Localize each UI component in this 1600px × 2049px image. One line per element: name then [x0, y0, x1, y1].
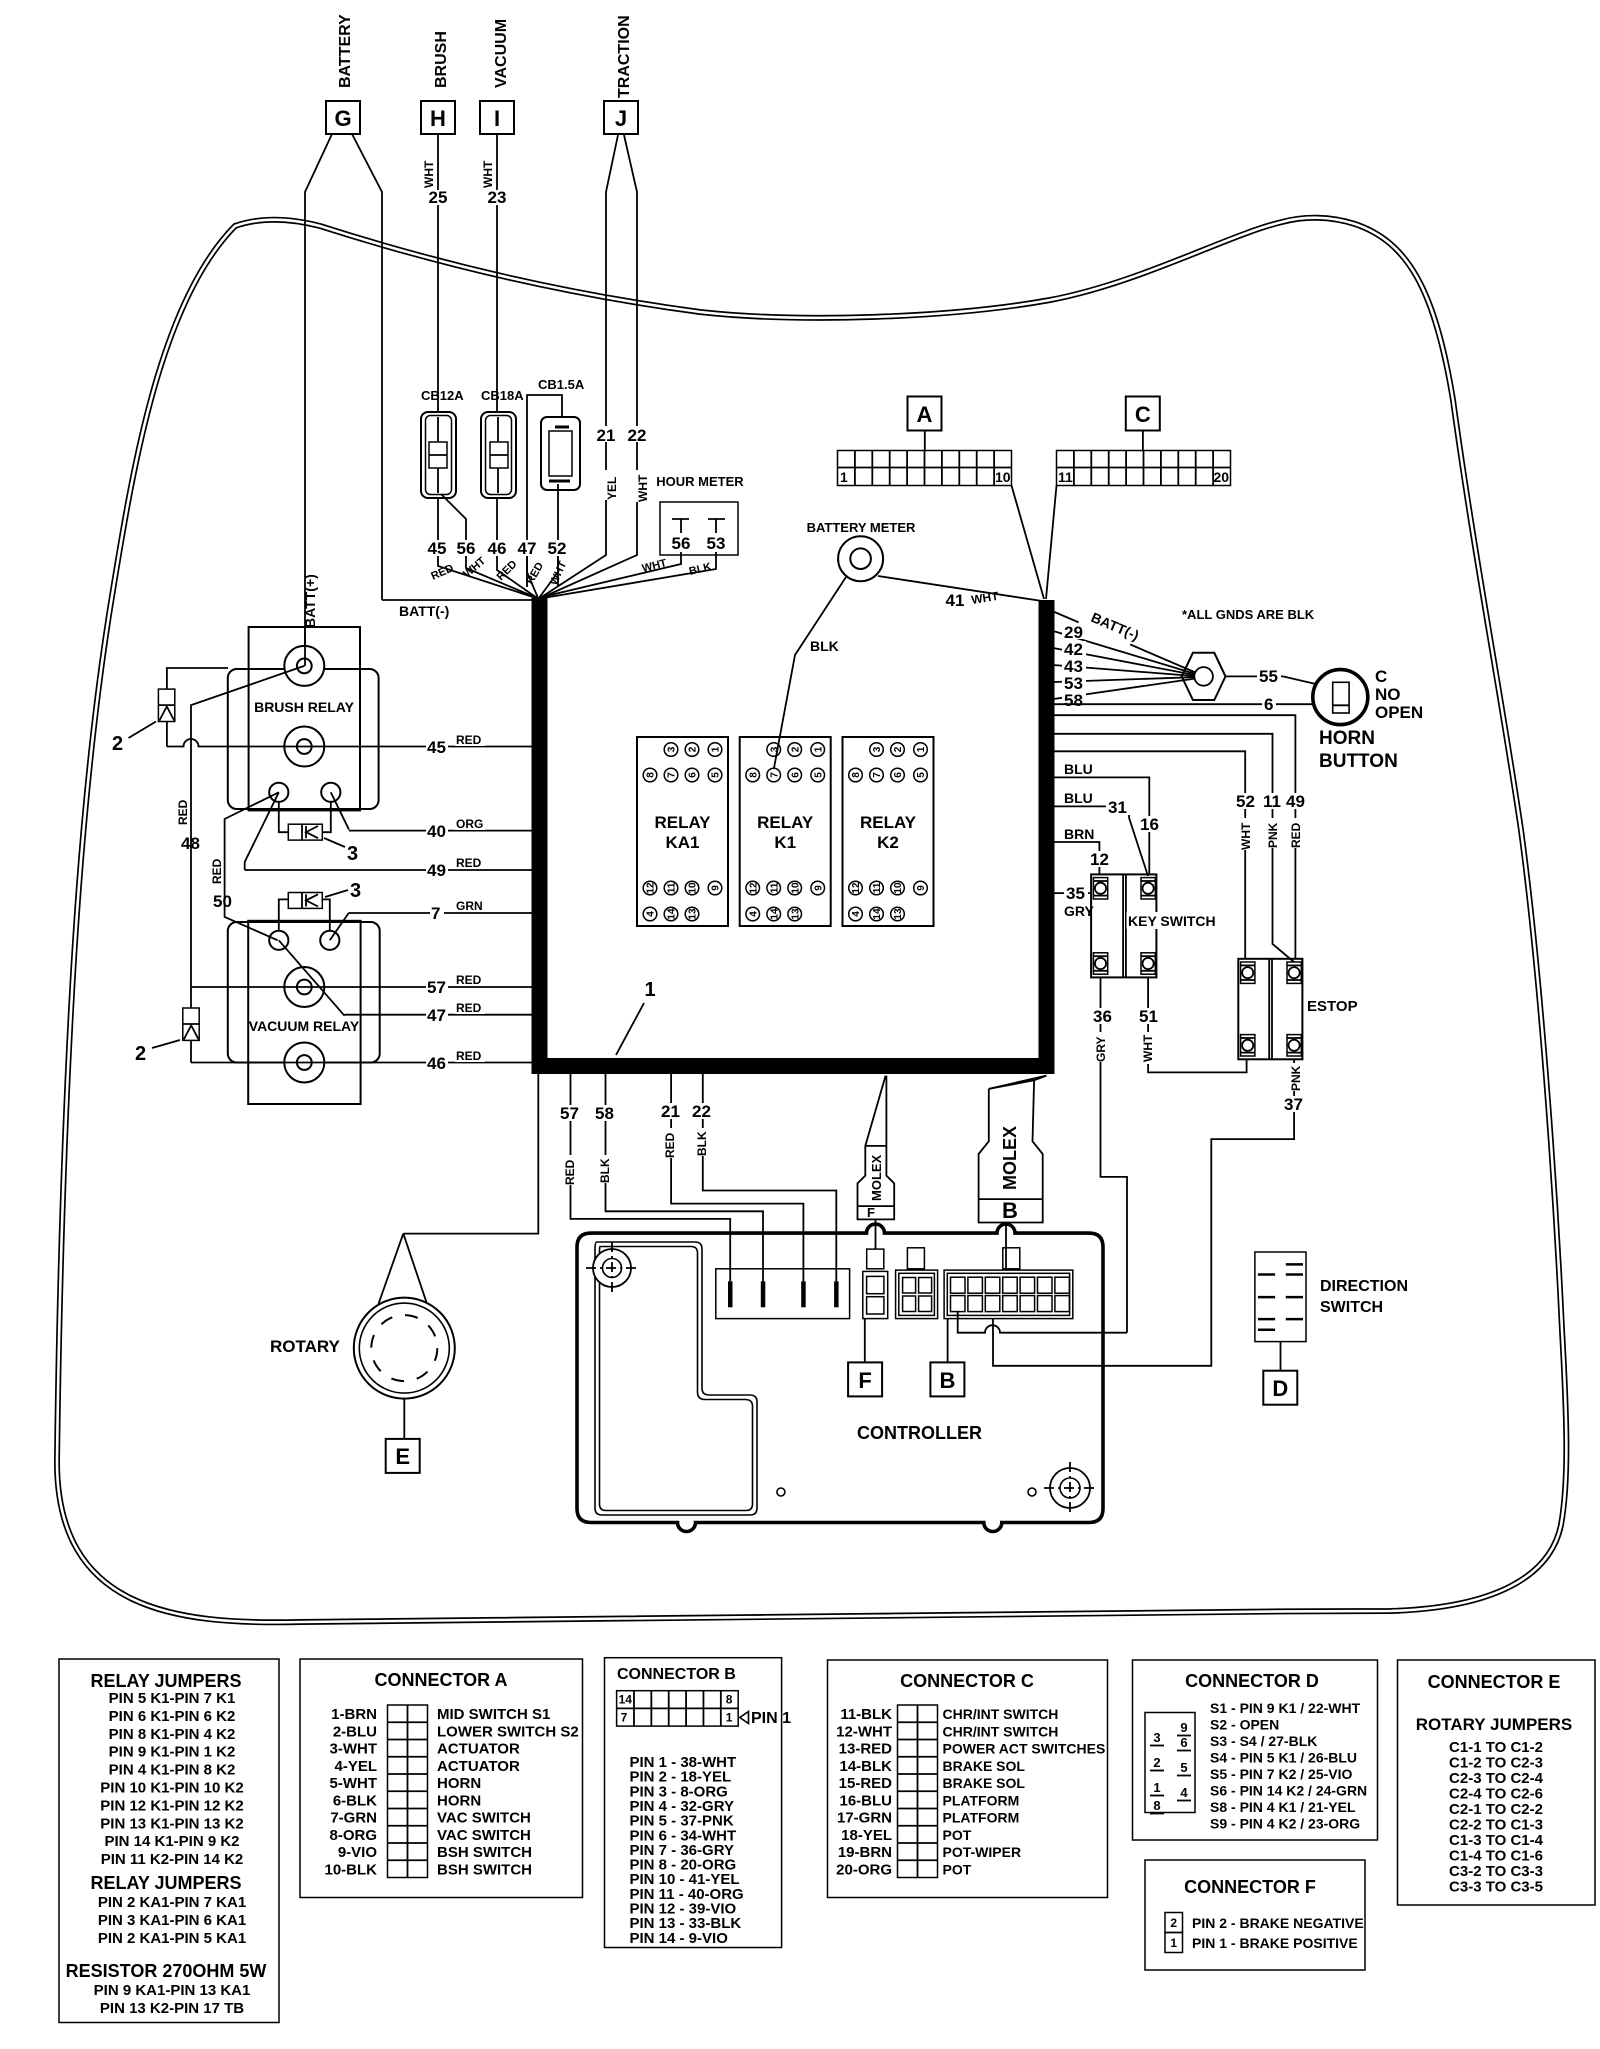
svg-text:55: 55: [1259, 667, 1278, 686]
svg-text:MID SWITCH S1: MID SWITCH S1: [437, 1706, 550, 1723]
wire 46 to junction: [496, 498, 498, 540]
svg-text:53: 53: [707, 534, 726, 553]
svg-text:PIN 3 KA1-PIN 6 KA1: PIN 3 KA1-PIN 6 KA1: [98, 1912, 246, 1929]
label 55: [1257, 667, 1281, 686]
svg-text:1: 1: [644, 979, 655, 1001]
wire 40 line: [349, 830, 532, 832]
svg-text:PIN 5 K1-PIN 7 K1: PIN 5 K1-PIN 7 K1: [109, 1690, 236, 1707]
wire 57 drop: [571, 1074, 731, 1281]
controller body: [577, 1224, 1103, 1531]
wire BATT(+) leg: [305, 134, 332, 646]
breaker CB12A: [421, 388, 464, 498]
svg-text:2: 2: [1170, 1916, 1177, 1930]
svg-text:S2 - OPEN: S2 - OPEN: [1210, 1717, 1279, 1733]
svg-text:POT: POT: [943, 1827, 972, 1843]
svg-text:LOWER SWITCH S2: LOWER SWITCH S2: [437, 1723, 579, 1740]
controller inner L-shape: [595, 1242, 757, 1515]
svg-text:19-BRN: 19-BRN: [838, 1844, 892, 1861]
svg-text:10: 10: [995, 469, 1011, 485]
svg-text:WHT: WHT: [422, 160, 436, 188]
svg-text:11: 11: [769, 882, 780, 893]
wire 22 leg from J: [624, 135, 637, 553]
svg-text:47: 47: [427, 1006, 446, 1025]
table RELAY JUMPERS: [59, 1659, 279, 2023]
label BLK: [808, 638, 842, 654]
molex B: [979, 1076, 1047, 1223]
svg-text:8: 8: [1153, 1798, 1160, 1813]
svg-text:6: 6: [893, 772, 904, 778]
svg-text:G: G: [334, 106, 351, 131]
connector E box: [386, 1439, 420, 1473]
wire strip A to bar top: [1012, 486, 1045, 600]
svg-text:9: 9: [711, 885, 722, 891]
svg-text:2: 2: [1153, 1755, 1160, 1770]
svg-text:49: 49: [427, 861, 446, 880]
label 41 WHT: [943, 589, 1000, 610]
table CONNECTOR A: [300, 1659, 583, 1898]
table CONNECTOR B: [605, 1658, 792, 1948]
svg-text:PIN 8 K1-PIN 4 K2: PIN 8 K1-PIN 4 K2: [109, 1726, 236, 1743]
svg-text:37: 37: [1284, 1095, 1303, 1114]
wire 52 lower to junction: [539, 556, 558, 598]
svg-text:2: 2: [112, 733, 123, 755]
table CONNECTOR C: [828, 1660, 1108, 1898]
wire strip C to bar top: [1046, 486, 1057, 600]
svg-text:47: 47: [518, 539, 537, 558]
relay K1: [740, 737, 831, 926]
svg-text:C1-1 TO C1-2: C1-1 TO C1-2: [1449, 1739, 1543, 1756]
wire 49 bar to estop: [1055, 715, 1296, 959]
svg-text:F: F: [867, 1205, 875, 1220]
svg-text:56: 56: [457, 539, 476, 558]
label 45: [427, 539, 448, 558]
svg-text:9: 9: [813, 885, 824, 891]
connector 2x2 molex: [896, 1248, 938, 1319]
svg-text:VAC SWITCH: VAC SWITCH: [437, 1827, 531, 1844]
connector G: [326, 101, 360, 134]
wire F box: [864, 1319, 866, 1363]
svg-text:BLK: BLK: [695, 1131, 709, 1156]
tables: [59, 1658, 1595, 2023]
horn button: [1313, 670, 1368, 725]
svg-text:PIN 10 K1-PIN 10 K2: PIN 10 K1-PIN 10 K2: [100, 1780, 243, 1797]
svg-text:57: 57: [427, 978, 446, 997]
svg-text:DIRECTION: DIRECTION: [1320, 1278, 1408, 1295]
svg-text:BATTERY: BATTERY: [337, 14, 354, 88]
svg-text:PLATFORM: PLATFORM: [943, 1792, 1020, 1808]
ground hex circle: [1194, 667, 1213, 686]
svg-text:4-YEL: 4-YEL: [334, 1758, 377, 1775]
svg-text:2-BLU: 2-BLU: [333, 1723, 377, 1740]
svg-text:ROTARY: ROTARY: [270, 1337, 341, 1356]
svg-text:10: 10: [688, 882, 699, 894]
svg-text:CONNECTOR D: CONNECTOR D: [1185, 1671, 1319, 1691]
svg-text:35: 35: [1066, 884, 1085, 903]
svg-text:3: 3: [350, 880, 361, 902]
svg-text:13: 13: [688, 908, 699, 920]
svg-text:20-ORG: 20-ORG: [836, 1861, 892, 1878]
wire A to strip: [924, 431, 926, 451]
wire 21 to junction: [540, 553, 606, 598]
svg-text:4: 4: [1180, 1785, 1188, 1800]
svg-text:RED: RED: [456, 856, 482, 870]
svg-text:31: 31: [1108, 798, 1127, 817]
svg-text:BATT(-): BATT(-): [399, 603, 449, 619]
svg-text:RED: RED: [1289, 822, 1303, 848]
wire 52 from CB1.5A bottom: [557, 484, 559, 586]
svg-text:PIN 13 K2-PIN 17 TB: PIN 13 K2-PIN 17 TB: [100, 2000, 244, 2017]
svg-text:1: 1: [1153, 1780, 1160, 1795]
svg-text:22: 22: [628, 426, 647, 445]
terminal block bar 1 left: [532, 598, 548, 1074]
svg-text:BATTERY METER: BATTERY METER: [807, 520, 916, 535]
controller small hole right: [1028, 1488, 1036, 1496]
svg-text:51: 51: [1139, 1007, 1158, 1026]
svg-text:1: 1: [840, 469, 848, 485]
svg-text:C2-4 TO C2-6: C2-4 TO C2-6: [1449, 1786, 1543, 1803]
svg-text:WHT: WHT: [636, 474, 650, 502]
svg-text:CB12A: CB12A: [421, 388, 464, 403]
svg-text:23: 23: [488, 188, 507, 207]
svg-text:1: 1: [1170, 1936, 1177, 1950]
wire 47 line: [345, 1014, 532, 1016]
wire 36 into connector B: [958, 1312, 1127, 1333]
label BATT(-) rotated: [1073, 605, 1141, 656]
svg-text:11: 11: [872, 882, 883, 893]
svg-text:9: 9: [1180, 1720, 1187, 1735]
svg-text:H: H: [430, 106, 446, 131]
svg-text:8: 8: [726, 1693, 733, 1707]
svg-text:MOLEX: MOLEX: [869, 1154, 884, 1201]
wire 50: [225, 792, 279, 940]
4 pin connector: [716, 1269, 850, 1319]
wire 57 line: [191, 986, 532, 988]
svg-text:GRY: GRY: [1064, 903, 1094, 919]
svg-text:S3 - S4 / 27-BLK: S3 - S4 / 27-BLK: [1210, 1733, 1317, 1749]
brush relay body: [228, 627, 379, 810]
wire B box: [947, 1319, 949, 1363]
relay K2: [843, 737, 934, 926]
svg-text:5: 5: [711, 772, 722, 778]
svg-text:7: 7: [431, 904, 440, 923]
table CONNECTOR E: [1398, 1660, 1596, 1905]
svg-text:18-YEL: 18-YEL: [841, 1827, 892, 1844]
svg-text:17-GRN: 17-GRN: [837, 1810, 892, 1827]
wire 49 drop: [245, 792, 279, 870]
svg-text:52: 52: [1236, 792, 1255, 811]
relay KA1: [637, 737, 728, 926]
svg-text:BRN: BRN: [1064, 826, 1094, 842]
label 6: [1262, 695, 1276, 714]
svg-text:PNK: PNK: [1289, 1065, 1303, 1091]
connector H: [421, 101, 455, 134]
svg-text:7: 7: [769, 772, 780, 778]
svg-text:4: 4: [748, 911, 759, 917]
svg-text:1: 1: [711, 746, 722, 752]
brush mid terminal: [284, 727, 324, 767]
label 22: [627, 426, 647, 445]
svg-text:I: I: [494, 106, 500, 131]
svg-text:1: 1: [916, 746, 927, 752]
wire 47 from CB1.5A top: [527, 395, 562, 587]
wire 45 to junction: [437, 498, 439, 540]
svg-text:45: 45: [428, 539, 447, 558]
connector A letter box: [908, 397, 942, 431]
svg-text:PIN 1 - BRAKE POSITIVE: PIN 1 - BRAKE POSITIVE: [1192, 1935, 1358, 1951]
connector B 14pin: [944, 1248, 1073, 1319]
svg-text:S4 - PIN 5 K1 / 26-BLU: S4 - PIN 5 K1 / 26-BLU: [1210, 1750, 1357, 1766]
svg-text:BUTTON: BUTTON: [1319, 751, 1398, 772]
svg-text:RELAY: RELAY: [654, 813, 711, 832]
breaker CB1.5A: [538, 377, 585, 490]
svg-text:E: E: [395, 1444, 410, 1469]
wire 55 ground to horn: [1226, 676, 1333, 688]
breaker CB18A: [481, 388, 524, 498]
label 46: [487, 539, 508, 558]
direction switch: [1255, 1252, 1408, 1371]
left line labels: [426, 733, 485, 757]
svg-text:14: 14: [872, 908, 883, 920]
svg-text:NO: NO: [1375, 685, 1401, 704]
wire BATT(-) to ground: [1055, 612, 1200, 674]
svg-text:WHT: WHT: [1239, 822, 1253, 850]
svg-text:8: 8: [851, 772, 862, 778]
svg-text:58: 58: [595, 1104, 614, 1123]
svg-text:6: 6: [688, 772, 699, 778]
svg-text:BSH SWITCH: BSH SWITCH: [437, 1861, 532, 1878]
vacuum bottom terminal: [284, 1043, 324, 1083]
svg-text:13: 13: [893, 908, 904, 920]
connector F 2pin: [863, 1249, 888, 1319]
rightside: [993, 605, 1423, 1366]
svg-text:POWER ACT SWITCHES: POWER ACT SWITCHES: [943, 1741, 1106, 1757]
svg-text:11: 11: [1058, 469, 1073, 485]
wire BRN 12 bar to key switch: [1055, 842, 1100, 874]
svg-text:C1-2 TO C2-3: C1-2 TO C2-3: [1449, 1755, 1543, 1772]
svg-text:BRUSH: BRUSH: [433, 31, 450, 88]
connector A strip: [838, 451, 1012, 486]
svg-text:2: 2: [688, 746, 699, 752]
svg-text:14: 14: [619, 1693, 633, 1707]
connector C letter box: [1126, 397, 1160, 431]
svg-text:PIN 4 K1-PIN 8 K2: PIN 4 K1-PIN 8 K2: [109, 1762, 236, 1779]
connector D box: [1263, 1371, 1297, 1405]
wire 22 drop: [703, 1074, 837, 1281]
svg-text:POT: POT: [943, 1861, 972, 1877]
diode 2 vacuum: [183, 987, 199, 1063]
wire 29 to ground: [1055, 631, 1200, 675]
svg-text:BLU: BLU: [1064, 790, 1093, 806]
molex F: [858, 1076, 895, 1220]
svg-text:PIN 2 KA1-PIN 7 KA1: PIN 2 KA1-PIN 7 KA1: [98, 1894, 246, 1911]
svg-text:25: 25: [429, 188, 448, 207]
wire BLU 31 bar to key switch: [1055, 806, 1149, 876]
svg-text:TRACTION: TRACTION: [616, 15, 633, 98]
svg-text:POT-WIPER: POT-WIPER: [943, 1844, 1022, 1860]
meterA: [774, 397, 1231, 769]
rotary: [270, 1234, 455, 1439]
wire BATT(-) horizontal: [382, 599, 532, 601]
svg-text:7: 7: [872, 772, 883, 778]
wire molex F to connector F: [875, 1219, 877, 1249]
svg-text:RED: RED: [456, 973, 482, 987]
svg-text:15-RED: 15-RED: [839, 1775, 893, 1792]
svg-text:9: 9: [916, 885, 927, 891]
svg-text:PIN 14 K1-PIN 9 K2: PIN 14 K1-PIN 9 K2: [104, 1833, 239, 1850]
svg-text:12: 12: [748, 882, 759, 894]
svg-text:PIN 9 KA1-PIN 13 KA1: PIN 9 KA1-PIN 13 KA1: [94, 1982, 251, 1999]
svg-text:RED: RED: [210, 858, 224, 884]
svg-text:8-ORG: 8-ORG: [329, 1827, 377, 1844]
svg-text:BLK: BLK: [810, 638, 839, 654]
table CONNECTOR D: [1133, 1660, 1378, 1840]
svg-text:PIN 11 K2-PIN 14 K2: PIN 11 K2-PIN 14 K2: [101, 1851, 244, 1868]
svg-text:1-BRN: 1-BRN: [331, 1706, 377, 1723]
svg-text:PIN 13 K1-PIN 13 K2: PIN 13 K1-PIN 13 K2: [100, 1815, 243, 1832]
svg-text:57: 57: [560, 1104, 579, 1123]
wire 36 from key switch: [1101, 977, 1128, 1332]
svg-text:CONNECTOR A: CONNECTOR A: [374, 1670, 507, 1690]
svg-text:S6 - PIN 14 K2 / 24-GRN: S6 - PIN 14 K2 / 24-GRN: [1210, 1783, 1367, 1799]
svg-text:S9 - PIN 4 K2 / 23-ORG: S9 - PIN 4 K2 / 23-ORG: [1210, 1816, 1360, 1832]
svg-text:RELAY JUMPERS: RELAY JUMPERS: [90, 1671, 241, 1691]
wire 56 to junction: [441, 494, 466, 540]
label WHT 23: [481, 160, 506, 207]
svg-text:58: 58: [1064, 691, 1083, 710]
svg-text:D: D: [1272, 1376, 1288, 1401]
svg-text:6: 6: [790, 772, 801, 778]
svg-text:PIN 1: PIN 1: [751, 1710, 791, 1727]
svg-text:K1: K1: [774, 833, 796, 852]
label 21: [596, 426, 616, 445]
label YEL: [605, 470, 619, 500]
svg-text:BRAKE SOL: BRAKE SOL: [943, 1758, 1026, 1774]
svg-text:3-WHT: 3-WHT: [330, 1741, 378, 1758]
svg-text:2: 2: [135, 1043, 146, 1065]
wire BATT+ into top terminal: [304, 628, 306, 666]
svg-text:16: 16: [1140, 815, 1159, 834]
wire 51 from key switch: [1148, 977, 1247, 1072]
svg-text:36: 36: [1093, 1007, 1112, 1026]
svg-text:7: 7: [667, 772, 678, 778]
svg-text:ROTARY JUMPERS: ROTARY JUMPERS: [1416, 1715, 1573, 1734]
svg-text:J: J: [615, 106, 627, 131]
svg-text:K2: K2: [877, 833, 899, 852]
svg-text:CB1.5A: CB1.5A: [538, 377, 585, 392]
wire 46 line: [191, 1062, 532, 1064]
svg-text:ACTUATOR: ACTUATOR: [437, 1758, 520, 1775]
svg-text:48: 48: [181, 834, 200, 853]
svg-text:4: 4: [851, 911, 862, 917]
svg-text:1: 1: [813, 746, 824, 752]
vacuum mid terminal: [284, 967, 324, 1007]
label WHT 25: [422, 160, 447, 207]
svg-text:B: B: [939, 1368, 955, 1393]
breakers: [302, 377, 744, 628]
wire 49 line: [245, 869, 532, 871]
svg-text:HORN: HORN: [1319, 728, 1375, 749]
svg-text:13: 13: [790, 908, 801, 920]
table CONNECTOR F: [1145, 1860, 1365, 1970]
connector J: [604, 101, 638, 134]
svg-text:14: 14: [667, 908, 678, 920]
estop: [1238, 959, 1357, 1060]
wire 42 to ground: [1055, 648, 1200, 676]
svg-text:ESTOP: ESTOP: [1307, 998, 1358, 1015]
svg-text:5: 5: [813, 772, 824, 778]
wire C to strip: [1142, 431, 1144, 451]
B box: [930, 1362, 964, 1396]
svg-text:21: 21: [661, 1102, 680, 1121]
svg-text:C1-3 TO C1-4: C1-3 TO C1-4: [1449, 1832, 1544, 1849]
wire 58 drop: [606, 1074, 764, 1281]
svg-text:MOLEX: MOLEX: [1000, 1126, 1020, 1190]
leftrelays: [112, 627, 532, 1104]
svg-text:7: 7: [621, 1710, 628, 1724]
svg-text:RED: RED: [563, 1159, 577, 1185]
wire BLK meter to K1 pin7: [774, 577, 846, 768]
connector C strip: [1057, 451, 1231, 486]
svg-text:WHT: WHT: [481, 160, 495, 188]
svg-text:3: 3: [872, 746, 883, 752]
svg-text:CONNECTOR E: CONNECTOR E: [1428, 1672, 1561, 1692]
key switch: [1091, 874, 1218, 977]
svg-text:PNK: PNK: [1266, 822, 1280, 848]
svg-text:10-BLK: 10-BLK: [324, 1861, 377, 1878]
coil 3 vacuum: [279, 893, 330, 931]
wire 35 GRY bar to key switch: [1055, 892, 1092, 894]
hour meter: [656, 474, 744, 555]
terminal block bar 1 right: [1039, 600, 1055, 1074]
svg-text:HOUR METER: HOUR METER: [656, 474, 744, 489]
svg-text:50: 50: [213, 892, 232, 911]
wire 21 leg from J: [606, 135, 618, 553]
svg-text:5: 5: [916, 772, 927, 778]
svg-text:CHR/INT SWITCH: CHR/INT SWITCH: [943, 1706, 1059, 1722]
svg-text:BATT(+): BATT(+): [302, 574, 318, 628]
svg-text:YEL: YEL: [605, 477, 619, 500]
svg-text:6: 6: [1264, 695, 1273, 714]
svg-text:RELAY JUMPERS: RELAY JUMPERS: [90, 1873, 241, 1893]
wire 47 diagonal: [279, 940, 345, 1016]
brush top terminal: [284, 646, 324, 686]
svg-text:RELAY: RELAY: [757, 813, 814, 832]
svg-text:C3-3 TO C3-5: C3-3 TO C3-5: [1449, 1879, 1543, 1896]
coil 3 brush: [279, 802, 331, 840]
svg-text:BLU: BLU: [1064, 761, 1093, 777]
svg-text:RED: RED: [456, 733, 482, 747]
wire hourmeter 53 to junction: [543, 552, 716, 598]
svg-text:CONTROLLER: CONTROLLER: [857, 1423, 982, 1443]
svg-text:KEY SWITCH: KEY SWITCH: [1128, 913, 1216, 929]
svg-text:C2-3 TO C2-4: C2-3 TO C2-4: [1449, 1770, 1544, 1787]
wire BLU 16 bar to key switch: [1055, 777, 1150, 874]
wire 21 drop: [671, 1074, 803, 1281]
svg-text:GRY: GRY: [1094, 1036, 1108, 1062]
svg-text:GRN: GRN: [456, 899, 483, 913]
svg-text:S8 - PIN 4 K1 / 21-YEL: S8 - PIN 4 K1 / 21-YEL: [1210, 1799, 1356, 1815]
svg-text:13-RED: 13-RED: [839, 1741, 893, 1758]
svg-text:B: B: [1002, 1198, 1018, 1223]
label 56: [456, 539, 477, 558]
wire 58 to ground: [1055, 678, 1200, 699]
svg-text:10: 10: [790, 882, 801, 894]
bar1: [532, 598, 1055, 1074]
svg-text:14-BLK: 14-BLK: [839, 1758, 892, 1775]
svg-text:49: 49: [1286, 792, 1305, 811]
label WHT wire22: [636, 470, 650, 502]
wire 11 bar to estop: [1055, 734, 1295, 962]
